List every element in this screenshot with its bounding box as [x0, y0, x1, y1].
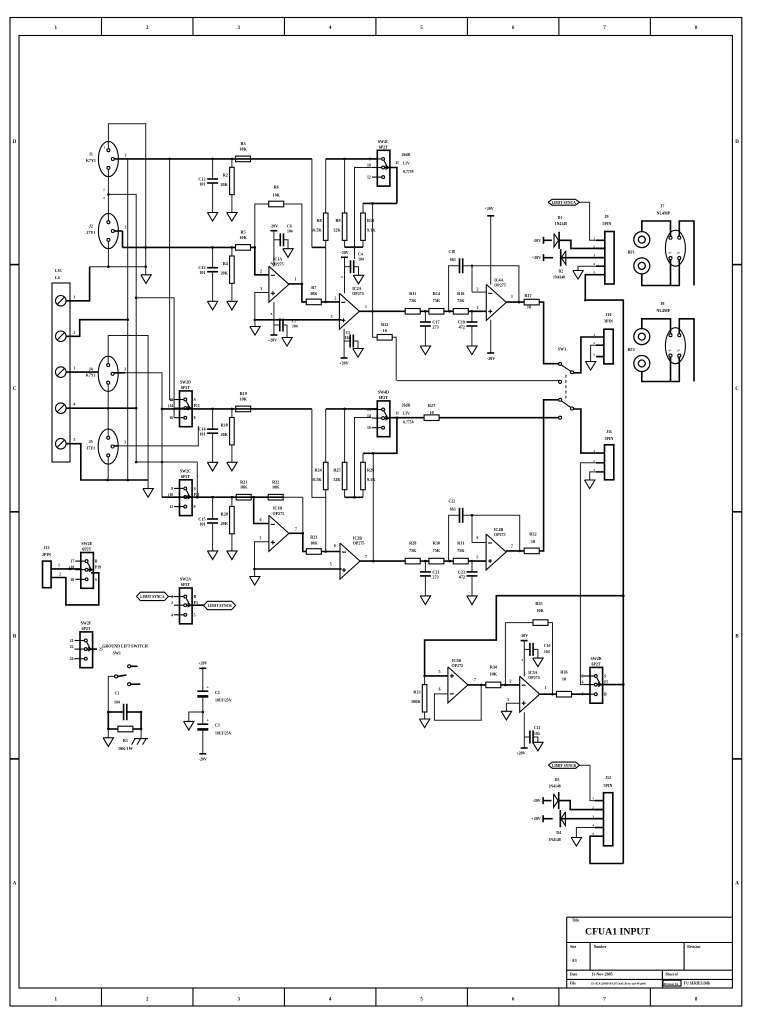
- svg-text:6P2T: 6P2T: [82, 547, 91, 552]
- capacitor C18 feedback: [449, 266, 460, 312]
- svg-text:B: B: [95, 560, 98, 564]
- svg-text:663: 663: [450, 508, 456, 512]
- wire J10 pin1 stub: [596, 356, 604, 358]
- svg-text:4: 4: [593, 262, 595, 266]
- diode D3 1N4148: [543, 800, 551, 802]
- svg-text:1: 1: [295, 277, 297, 281]
- wire J8 top: [642, 319, 671, 334]
- resistor R4: [231, 247, 233, 256]
- svg-text:10K: 10K: [536, 608, 544, 613]
- svg-text:OP275: OP275: [452, 663, 464, 668]
- svg-text:3PIN: 3PIN: [604, 319, 613, 324]
- svg-text:75K: 75K: [457, 298, 465, 303]
- jack BF2 upper: [634, 329, 650, 345]
- wire R5 to IC1A pin2: [251, 247, 269, 274]
- svg-text:OP275: OP275: [494, 532, 506, 537]
- switch SW2F: [80, 632, 93, 668]
- wire IC2A feedback vertical: [372, 203, 374, 311]
- svg-text:3: 3: [593, 449, 595, 453]
- resistor R10: [362, 203, 364, 213]
- svg-text:SW3: SW3: [558, 346, 566, 351]
- svg-text:-20V: -20V: [520, 633, 528, 638]
- flag LIMIT SYNCA: [136, 592, 168, 600]
- svg-text:OP275: OP275: [528, 675, 540, 680]
- svg-text:LIMIT SYNCB: LIMIT SYNCB: [208, 604, 233, 608]
- svg-text:2+: 2+: [677, 349, 681, 353]
- diode D1 1N4148: [544, 239, 552, 241]
- svg-text:R31: R31: [457, 541, 464, 546]
- svg-text:6P2T: 6P2T: [181, 385, 190, 390]
- svg-text:472: 472: [459, 325, 465, 330]
- ground: [282, 338, 292, 347]
- svg-text:BF1: BF1: [628, 250, 635, 255]
- svg-text:3PIN: 3PIN: [605, 436, 614, 441]
- svg-text:6: 6: [260, 518, 262, 522]
- chassis ground: [140, 729, 142, 739]
- ground: [227, 462, 237, 471]
- svg-text:12K: 12K: [333, 477, 341, 482]
- svg-text:3: 3: [593, 254, 595, 258]
- ground: [283, 249, 293, 258]
- svg-text:11: 11: [395, 161, 399, 165]
- svg-text:17: 17: [71, 560, 75, 564]
- wire R17 to SW3: [539, 302, 559, 364]
- wire IC4A output: [506, 301, 524, 303]
- svg-text:C2: C2: [215, 691, 220, 695]
- svg-text:6: 6: [477, 536, 479, 540]
- svg-text:R8: R8: [317, 218, 322, 223]
- ground: [467, 346, 477, 355]
- wire SW2A common to flag: [192, 604, 204, 606]
- diode D2 1N4148: [544, 257, 554, 259]
- wire SW4D to R26 top bus: [363, 418, 397, 454]
- ground: [585, 362, 595, 371]
- svg-text:8: 8: [271, 312, 273, 316]
- svg-text:3: 3: [507, 698, 509, 702]
- resistor R27: [424, 415, 439, 421]
- wire J1 pin1 bracket to ground rail: [108, 124, 145, 267]
- capacitor C19: [471, 311, 473, 322]
- svg-text:9: 9: [369, 157, 371, 161]
- wire LS1 terminal4 to bus: [66, 407, 136, 409]
- svg-text:OP275: OP275: [352, 291, 364, 296]
- connector J2 XLR: [98, 213, 118, 248]
- svg-text:1N4148: 1N4148: [548, 838, 560, 842]
- wire IC4B pin6: [472, 542, 486, 544]
- svg-text:OP275: OP275: [273, 511, 285, 516]
- svg-text:26dB: 26dB: [402, 153, 411, 157]
- svg-text:12: 12: [367, 176, 371, 180]
- wire J5 pin3 to SW2D bottom: [118, 426, 198, 446]
- svg-text:Size: Size: [570, 945, 577, 949]
- svg-text:R16: R16: [457, 291, 464, 296]
- wire SW2C common row: [162, 496, 283, 498]
- svg-text:4: 4: [341, 275, 343, 279]
- ground: [141, 275, 151, 284]
- wire SW4C bottom bus: [363, 202, 397, 204]
- svg-text:104: 104: [544, 650, 550, 654]
- svg-text:+20V: +20V: [516, 751, 525, 756]
- wire J12 pin5 to output bus: [590, 836, 623, 863]
- capacitor C13: [212, 247, 214, 267]
- resistor R9: [344, 159, 346, 213]
- svg-text:SW1: SW1: [113, 651, 121, 656]
- svg-text:S: S: [194, 398, 196, 402]
- resistor R7: [302, 284, 306, 302]
- wire R22 to output corner: [283, 497, 303, 533]
- svg-text:P11: P11: [194, 493, 200, 497]
- svg-text:10.5K: 10.5K: [311, 477, 322, 482]
- ground: [353, 275, 363, 284]
- ground: [207, 551, 217, 560]
- ground: [147, 480, 149, 489]
- svg-text:R30: R30: [433, 541, 440, 546]
- wire LS1 terminal2 to bus: [66, 320, 128, 337]
- op-amp IC4A OP275: [486, 284, 506, 320]
- resistor R25: [344, 409, 346, 462]
- svg-text:J1: J1: [89, 152, 93, 157]
- svg-text:10: 10: [367, 164, 371, 168]
- svg-text:SW2B: SW2B: [591, 656, 602, 661]
- svg-text:B: B: [194, 595, 197, 599]
- svg-text:3: 3: [593, 333, 595, 337]
- svg-text:D:\EX\2005\8\CFUxxLR\so q\SW.p: D:\EX\2005\8\CFUxxLR\so q\SW.phb: [591, 982, 646, 986]
- wire SW4C pin9 row: [326, 158, 378, 160]
- ground: [107, 729, 109, 738]
- wire cross link row 462: [136, 461, 197, 463]
- jack BF1 upper: [634, 232, 650, 248]
- power -20V for IC4A: [490, 320, 492, 353]
- svg-text:-20V: -20V: [533, 238, 541, 243]
- wire flag to J12 pin1: [580, 765, 604, 800]
- svg-text:J10: J10: [606, 312, 612, 317]
- resistor R2: [231, 159, 233, 167]
- svg-text:P19: P19: [95, 566, 101, 570]
- svg-text:J7Y1: J7Y1: [86, 230, 95, 235]
- wire SW1 to C1 node: [108, 676, 114, 712]
- svg-text:R35: R35: [535, 601, 542, 606]
- svg-text:BF2: BF2: [628, 347, 635, 352]
- wire channel A lower input row: [123, 246, 236, 248]
- wire drop to SW2C row: [196, 462, 198, 497]
- resistor R23: [303, 533, 306, 551]
- wire SW2D pin13 to bus: [169, 159, 171, 400]
- wire D1 to J9 pin2: [559, 240, 605, 248]
- connector J4 XLR: [98, 356, 118, 391]
- wire SW3 mechanical link dashed: [565, 375, 567, 399]
- svg-text:10K: 10K: [272, 193, 280, 198]
- wire J7 top: [642, 221, 671, 236]
- ground: [420, 596, 430, 605]
- resistor R1: [107, 712, 109, 729]
- svg-text:1: 1: [593, 353, 595, 357]
- wire SW3 common to J10: [574, 337, 604, 373]
- svg-text:S: S: [604, 675, 606, 679]
- op-amp IC4B OP275: [486, 534, 506, 570]
- svg-text:10K: 10K: [239, 146, 247, 151]
- svg-text:+20V: +20V: [198, 661, 207, 666]
- power +20V for D2: [543, 254, 545, 261]
- svg-text:273: 273: [432, 325, 438, 330]
- svg-text:LIMIT SYNCA: LIMIT SYNCA: [552, 201, 577, 205]
- ground: [250, 327, 260, 336]
- svg-text:J11: J11: [606, 429, 612, 434]
- svg-text:+20V: +20V: [339, 361, 348, 366]
- svg-text:101: 101: [199, 270, 205, 275]
- svg-text:J4: J4: [89, 366, 93, 371]
- wire LS1 terminal5 to ground row: [66, 444, 148, 480]
- connector J7 NL4MP: [665, 230, 685, 266]
- svg-text:2: 2: [74, 331, 76, 335]
- ground: [207, 462, 217, 471]
- svg-text:Sheet of: Sheet of: [666, 972, 679, 976]
- svg-text:R17: R17: [524, 293, 531, 298]
- svg-text:1+: 1+: [668, 349, 672, 353]
- svg-text:2: 2: [477, 287, 479, 291]
- svg-text:3: 3: [124, 368, 126, 372]
- capacitor C21: [424, 561, 426, 572]
- svg-text:C: C: [735, 387, 739, 392]
- flag LIMIT SYNCB: [548, 762, 579, 768]
- svg-text:2: 2: [593, 341, 595, 345]
- svg-text:7: 7: [365, 555, 367, 559]
- ground: [184, 721, 194, 730]
- svg-text:R2: R2: [223, 172, 228, 177]
- resistor R31: [453, 558, 468, 564]
- wire J1 pin3 row: [119, 158, 312, 160]
- svg-text:5: 5: [477, 556, 479, 560]
- capacitor C14: [212, 409, 214, 429]
- op-amp IC1A OP275: [269, 266, 289, 302]
- resistor R14: [420, 310, 429, 312]
- svg-text:12: 12: [169, 505, 173, 509]
- wire LS1 terminal1 to J2 ground rail: [66, 267, 90, 301]
- wire IC2A output: [359, 310, 405, 312]
- svg-text:6P2T: 6P2T: [591, 662, 600, 667]
- svg-text:SW2E: SW2E: [81, 541, 92, 546]
- svg-text:J7Y1: J7Y1: [86, 445, 95, 450]
- ground: [353, 349, 363, 358]
- svg-text:+: +: [207, 718, 210, 723]
- svg-text:+20V: +20V: [531, 816, 540, 821]
- capacitor C7: [274, 324, 280, 326]
- wire J11 pin2 to SW2B bus: [580, 463, 604, 676]
- svg-text:6: 6: [334, 544, 336, 548]
- svg-text:C3: C3: [215, 724, 220, 728]
- wire IC4A pin2: [472, 291, 486, 293]
- svg-text:7: 7: [474, 678, 476, 682]
- svg-text:NL4MP: NL4MP: [657, 210, 671, 215]
- svg-text:D2: D2: [558, 269, 563, 273]
- wire SW4D pin13 row: [326, 408, 378, 410]
- wire SW2D pin16 branch: [136, 298, 174, 418]
- svg-text:-20V: -20V: [532, 798, 540, 803]
- capacitor C10: [524, 648, 530, 650]
- svg-text:J12: J12: [605, 775, 611, 780]
- svg-text:104: 104: [292, 325, 298, 329]
- ground: [533, 658, 543, 667]
- svg-text:5: 5: [74, 438, 76, 442]
- svg-text:4: 4: [270, 261, 272, 265]
- svg-text:A3: A3: [572, 958, 577, 963]
- svg-text:10K: 10K: [240, 485, 248, 490]
- svg-text:20K: 20K: [220, 271, 228, 276]
- flag LIMIT SYNCA: [548, 199, 579, 205]
- wire J7 pin 1- down: [670, 260, 672, 286]
- svg-text:2: 2: [171, 601, 173, 605]
- svg-text:1.1V: 1.1V: [402, 412, 410, 416]
- svg-text:D1: D1: [558, 216, 563, 220]
- ground: [573, 271, 583, 280]
- svg-text:2: 2: [593, 459, 595, 463]
- connector J12: [604, 793, 613, 846]
- svg-text:2: 2: [593, 244, 595, 248]
- svg-text:10K: 10K: [310, 541, 318, 546]
- svg-text:Title: Title: [572, 919, 580, 923]
- svg-text:3: 3: [124, 441, 126, 445]
- svg-text:11: 11: [395, 411, 399, 415]
- capacitor C15: [212, 497, 214, 519]
- svg-text:J13: J13: [44, 545, 50, 550]
- svg-text:9.1K: 9.1K: [367, 228, 376, 233]
- power -20V for D3: [542, 797, 544, 804]
- ground rail under J2: [90, 266, 146, 268]
- ground: [467, 596, 477, 605]
- ground: [207, 301, 217, 310]
- svg-text:10: 10: [562, 677, 566, 682]
- svg-text:C1: C1: [115, 692, 120, 696]
- svg-text:5: 5: [260, 537, 262, 541]
- svg-text:104: 104: [358, 257, 364, 261]
- svg-text:LIMIT SYNCB: LIMIT SYNCB: [552, 764, 577, 768]
- wire R8 branch: [311, 159, 313, 248]
- wire J1 pin2 to LS1 terminal 1: [107, 177, 109, 214]
- ground: [207, 213, 217, 222]
- svg-text:NL4MP: NL4MP: [657, 308, 671, 313]
- svg-text:3: 3: [592, 815, 594, 819]
- svg-text:104: 104: [345, 336, 351, 340]
- svg-text:-20V: -20V: [487, 356, 495, 361]
- svg-text:C18: C18: [448, 250, 455, 254]
- svg-text:(14: (14: [168, 404, 173, 408]
- wire J8 top right: [679, 319, 694, 382]
- svg-text:20K: 20K: [220, 432, 228, 437]
- resistor R5: [236, 245, 251, 251]
- switch SW4D: [377, 401, 390, 437]
- svg-text:+: +: [207, 684, 210, 689]
- svg-text:R34: R34: [490, 664, 498, 669]
- wire LS1 terminal3 to J4: [66, 371, 98, 373]
- svg-text:J8: J8: [660, 301, 664, 306]
- svg-text:R28: R28: [409, 541, 416, 546]
- svg-text:3: 3: [260, 287, 262, 291]
- wire IC1B pin5 to ground rail: [255, 542, 269, 569]
- svg-text:6P2T: 6P2T: [379, 145, 388, 150]
- capacitor C12: [212, 159, 214, 179]
- resistor R26: [362, 453, 364, 462]
- wire D4 to J12 pin3: [562, 818, 604, 820]
- svg-text:16: 16: [367, 426, 371, 430]
- svg-text:101: 101: [199, 432, 205, 437]
- svg-text:Number: Number: [594, 945, 607, 949]
- svg-text:(10: (10: [168, 493, 173, 497]
- wire SW2B pins 5 6 link: [580, 676, 584, 685]
- wire R27 to SW3 lower fixed2: [439, 417, 558, 419]
- wire output bus lower: [622, 596, 624, 864]
- svg-text:R33: R33: [413, 690, 420, 695]
- svg-text:472: 472: [459, 574, 465, 579]
- svg-text:2: 2: [103, 188, 105, 192]
- svg-text:20K: 20K: [220, 182, 228, 187]
- ground: [250, 577, 260, 586]
- switch SW4C: [377, 150, 390, 186]
- svg-text:7: 7: [295, 527, 297, 531]
- wire J8 pin 1- down: [670, 357, 672, 381]
- svg-text:20K: 20K: [220, 521, 228, 526]
- svg-text:1: 1: [511, 295, 513, 299]
- power -20V rail: [202, 729, 204, 753]
- svg-text:8: 8: [582, 693, 584, 697]
- wire J9 pin4 to ground: [578, 266, 596, 270]
- svg-text:D4: D4: [556, 831, 561, 835]
- svg-text:2: 2: [592, 806, 594, 810]
- capacitor C23: [471, 561, 473, 572]
- svg-text:4: 4: [171, 613, 173, 617]
- resistor R19: [236, 406, 251, 412]
- svg-text:S: S: [95, 578, 97, 582]
- svg-text:3: 3: [477, 306, 479, 310]
- capacitor C2 electrolytic: [197, 690, 208, 692]
- svg-text:C22: C22: [448, 500, 455, 504]
- svg-text:1: 1: [58, 563, 60, 567]
- svg-text:R7: R7: [311, 285, 316, 290]
- ground: [227, 213, 237, 222]
- op-amp IC1B OP275: [269, 515, 289, 551]
- op-amp IC5B OP275: [448, 667, 468, 703]
- ground: [227, 551, 237, 560]
- resistor R36: [557, 691, 572, 697]
- capacitor C22 feedback: [449, 515, 460, 561]
- wire IC2B feedback vertical: [372, 453, 374, 561]
- terminal strip LS1: [52, 283, 70, 462]
- svg-text:104: 104: [114, 701, 120, 705]
- ground: [501, 711, 511, 720]
- ground rail to IC2A noninverting input: [255, 319, 342, 321]
- switch SW2C: [180, 480, 193, 516]
- svg-text:4: 4: [592, 824, 594, 828]
- ground: [227, 301, 237, 310]
- svg-text:0.775V: 0.775V: [403, 170, 415, 174]
- svg-text:D3: D3: [555, 778, 560, 782]
- svg-text:6: 6: [582, 681, 584, 685]
- wire IC5B pin5 row: [425, 675, 448, 677]
- svg-text:5: 5: [194, 613, 196, 617]
- ground: [571, 838, 581, 847]
- switch SW2E: [81, 553, 94, 589]
- jack BF1 lower: [634, 258, 650, 274]
- svg-text:5: 5: [439, 670, 441, 674]
- resistor R3: [236, 156, 251, 162]
- svg-text:10K/1W: 10K/1W: [118, 746, 134, 751]
- resistor R28: [405, 558, 420, 564]
- svg-text:7: 7: [511, 545, 513, 549]
- switch SW2B: [590, 667, 603, 703]
- svg-text:21: 21: [70, 639, 74, 643]
- svg-text:1N4148: 1N4148: [553, 275, 565, 279]
- svg-text:OP275: OP275: [353, 541, 365, 546]
- svg-text:J2: J2: [89, 224, 93, 229]
- svg-text:C10: C10: [544, 644, 551, 648]
